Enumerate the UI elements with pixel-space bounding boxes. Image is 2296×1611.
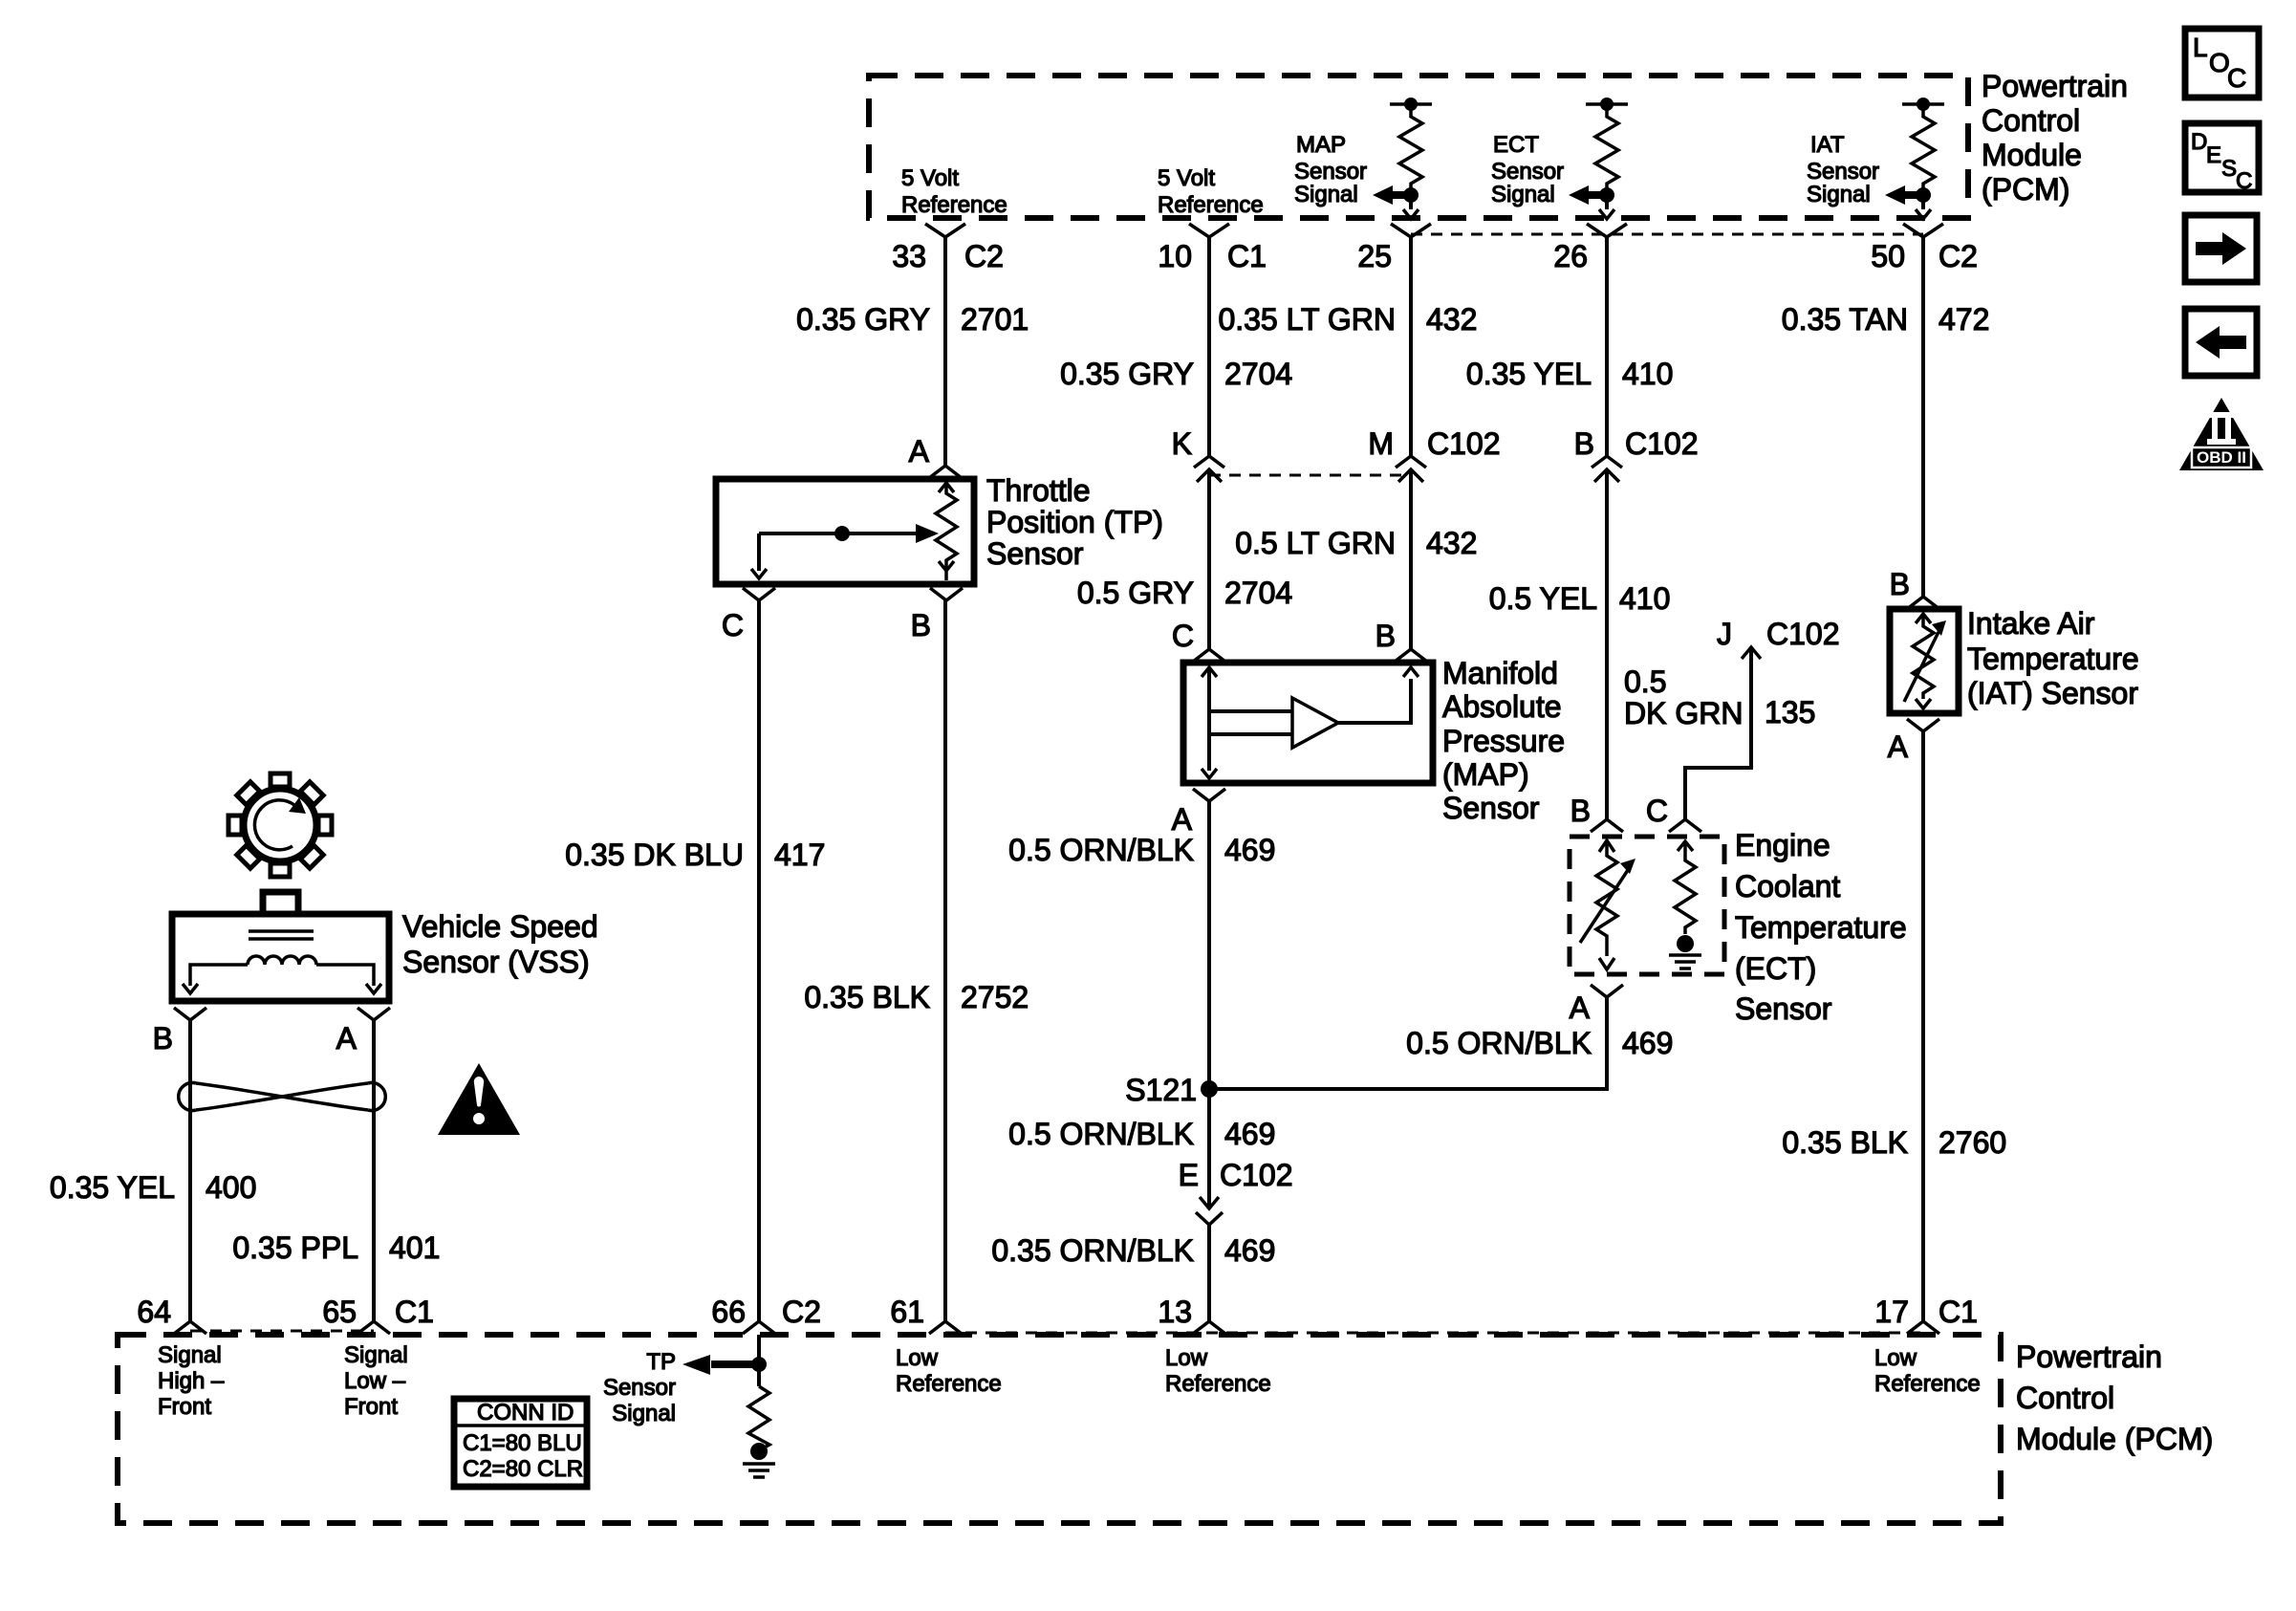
wire MAP signal arrow to pin 25 (1373, 185, 1419, 219)
svg-text:0.35 GRY: 0.35 GRY (1060, 357, 1194, 391)
svg-text:0.35 ORN/BLK: 0.35 ORN/BLK (991, 1233, 1194, 1268)
svg-text:D: D (2191, 129, 2207, 155)
svg-text:Low –: Low – (344, 1368, 406, 1394)
svg-text:C1: C1 (395, 1295, 434, 1329)
svg-text:Absolute: Absolute (1442, 689, 1562, 724)
icon forward arrow box (2185, 215, 2257, 282)
vehicle speed sensor box (172, 914, 389, 1001)
resistor IAT thermistor element (1904, 614, 1946, 708)
svg-text:Control: Control (1982, 103, 2080, 138)
svg-text:L: L (2193, 33, 2208, 62)
svg-text:Signal: Signal (344, 1342, 408, 1368)
pin 65 C1 (322, 1295, 434, 1334)
svg-text:Module (PCM): Module (PCM) (2016, 1422, 2213, 1456)
svg-text:(MAP): (MAP) (1442, 757, 1529, 792)
svg-text:Low: Low (1874, 1345, 1917, 1371)
connector M C102 (1368, 426, 1500, 482)
svg-text:64: 64 (137, 1295, 171, 1329)
warning triangle (438, 1063, 520, 1135)
svg-text:High –: High – (158, 1368, 225, 1394)
connector C2 dashed link pins 25-50 (1411, 233, 1923, 236)
label Throttle Position (TP) Sensor (986, 473, 1163, 571)
label Signal Low Front (344, 1342, 408, 1420)
throttle position sensor box (716, 479, 974, 584)
svg-text:5 Volt: 5 Volt (901, 165, 959, 191)
svg-text:B: B (911, 608, 931, 642)
svg-text:13: 13 (1158, 1295, 1192, 1329)
svg-text:Sensor: Sensor (1491, 159, 1564, 185)
svg-text:E: E (1179, 1158, 1199, 1192)
wire 0.5 YEL 410 B C102 to ECT B (1489, 469, 1671, 819)
svg-text:135: 135 (1765, 695, 1815, 729)
svg-text:469: 469 (1224, 1233, 1275, 1268)
svg-text:Manifold: Manifold (1442, 656, 1558, 690)
wire 0.5 ORN/BLK 469 ECT A to S121 (1209, 997, 1673, 1089)
svg-text:A: A (336, 1021, 357, 1056)
label ECT Sensor Signal (1491, 132, 1564, 207)
label 5 Volt Reference (pin 10) (1158, 165, 1264, 218)
PCM top dashed box (869, 76, 1968, 218)
svg-text:0.35 DK BLU: 0.35 DK BLU (565, 838, 744, 872)
svg-text:Powertrain: Powertrain (2016, 1339, 2162, 1374)
svg-text:Reference: Reference (1165, 1371, 1271, 1397)
svg-text:C: C (1172, 619, 1194, 653)
VSS internal pickup coil (183, 931, 381, 993)
wire 0.35 GRY 2701 pin33 to TP A (796, 237, 1029, 466)
svg-text:Signal: Signal (612, 1401, 676, 1426)
svg-text:469: 469 (1224, 1117, 1275, 1151)
svg-text:401: 401 (389, 1230, 440, 1265)
label Engine Coolant Temperature (ECT) Sensor (1735, 828, 1907, 1026)
svg-text:J: J (1717, 617, 1732, 651)
label Signal High Front (158, 1342, 225, 1420)
svg-text:C2=80 CLR: C2=80 CLR (463, 1456, 583, 1482)
ground in ECT sensor (1669, 955, 1701, 969)
svg-text:B: B (1890, 567, 1910, 601)
svg-text:2701: 2701 (961, 302, 1029, 337)
svg-text:A: A (1172, 802, 1193, 837)
resistor TP potentiometer element (936, 483, 957, 580)
svg-text:A: A (1888, 729, 1909, 764)
resistor IAT pull-up in PCM (1902, 98, 1944, 195)
svg-text:Coolant: Coolant (1735, 869, 1840, 903)
pin 61 (890, 1295, 962, 1334)
MAP sensor box (1183, 663, 1433, 783)
svg-text:417: 417 (774, 838, 825, 872)
svg-text:M: M (1368, 426, 1394, 461)
wire TP wiper arm (751, 524, 939, 578)
label Powertrain Control Module (PCM) top right (1982, 69, 2128, 207)
svg-text:Reference: Reference (901, 192, 1007, 218)
svg-text:(ECT): (ECT) (1735, 951, 1816, 986)
svg-text:OBD II: OBD II (2197, 448, 2246, 467)
svg-text:MAP: MAP (1296, 132, 1346, 158)
VSS connector stem (263, 892, 298, 914)
svg-text:26: 26 (1553, 239, 1588, 273)
svg-text:C1=80 BLU: C1=80 BLU (463, 1430, 582, 1456)
svg-text:0.35 BLK: 0.35 BLK (1782, 1125, 1908, 1160)
svg-text:Sensor: Sensor (603, 1375, 676, 1401)
svg-text:Powertrain: Powertrain (1982, 69, 2128, 103)
pin 17 C1 (1874, 1295, 1978, 1334)
pin C of MAP sensor (1172, 619, 1225, 662)
label IAT Sensor Signal (1807, 132, 1879, 207)
wire 0.5 ORN/BLK 469 below S121 (1008, 1117, 1275, 1151)
resistor ECT thermistor element (1580, 840, 1635, 969)
svg-text:Reference: Reference (1874, 1371, 1981, 1397)
svg-text:Intake Air: Intake Air (1967, 606, 2095, 641)
wire 0.35 YEL 410 pin26 to B C102 (1466, 237, 1673, 456)
resistor TP pull-up in PCM (748, 1386, 769, 1460)
IAT sensor box (1890, 609, 1959, 713)
svg-text:0.5 ORN/BLK: 0.5 ORN/BLK (1008, 833, 1194, 867)
svg-text:C2: C2 (1939, 239, 1978, 273)
svg-text:Front: Front (158, 1394, 211, 1420)
op-amp triangle in MAP sensor (1292, 698, 1338, 748)
svg-text:Reference: Reference (1158, 192, 1264, 218)
pin 26 (1553, 224, 1627, 273)
svg-text:Reference: Reference (896, 1371, 1002, 1397)
svg-text:TP: TP (646, 1349, 676, 1375)
svg-text:0.35 PPL: 0.35 PPL (232, 1230, 358, 1265)
svg-text:2760: 2760 (1939, 1125, 2006, 1160)
label Low Reference (pin 13) (1165, 1345, 1271, 1397)
svg-text:C: C (722, 608, 744, 642)
svg-text:66: 66 (711, 1295, 746, 1329)
wire 0.35 ORN/BLK 469 E to pin 13 (991, 1225, 1275, 1321)
svg-text:410: 410 (1622, 357, 1673, 391)
pin B of ECT sensor (1570, 794, 1623, 832)
CONN ID table (454, 1399, 587, 1487)
svg-text:0.5 LT GRN: 0.5 LT GRN (1235, 526, 1396, 560)
svg-text:Signal: Signal (1294, 182, 1358, 207)
svg-text:33: 33 (892, 239, 926, 273)
connector C1 dashed link pins 64-65 (190, 1330, 374, 1333)
label Low Reference (pin 17) (1874, 1345, 1981, 1397)
wire 0.35 LT GRN 432 pin25 to M (1218, 237, 1477, 456)
node S121 (1125, 1073, 1218, 1107)
svg-text:65: 65 (322, 1295, 357, 1329)
wire 0.5 LT GRN 432 M to MAP B (1235, 469, 1477, 649)
wire 0.5 ORN/BLK 469 MAP A to S121 (1008, 801, 1275, 1206)
svg-text:IAT: IAT (1810, 132, 1845, 158)
svg-text:ECT: ECT (1493, 132, 1539, 158)
wire 0.35 DK BLU 417 TP C to pin 66 (565, 600, 825, 1321)
svg-text:Throttle: Throttle (986, 473, 1090, 508)
pin A of MAP sensor (1172, 789, 1225, 837)
svg-text:Signal: Signal (1491, 182, 1555, 207)
icon DESC box (2185, 123, 2259, 194)
svg-text:B: B (1375, 619, 1396, 653)
svg-text:Front: Front (344, 1394, 398, 1420)
svg-text:B: B (153, 1021, 173, 1056)
svg-text:50: 50 (1871, 239, 1905, 273)
pin B of VSS (153, 1008, 206, 1056)
resistor MAP pull-up in PCM (1390, 98, 1432, 195)
pin 64 (137, 1295, 206, 1334)
svg-text:E: E (2206, 142, 2221, 168)
VSS gear icon (228, 773, 332, 877)
MAP internal input wires (1202, 667, 1292, 778)
svg-text:10: 10 (1158, 239, 1192, 273)
label Powertrain Control Module (PCM) bottom right (2016, 1339, 2213, 1456)
icon LOC box (2185, 29, 2259, 98)
svg-text:469: 469 (1622, 1026, 1673, 1060)
connector C102 dashed link K-M (1209, 474, 1411, 477)
svg-text:Temperature: Temperature (1735, 910, 1907, 945)
svg-text:Control: Control (2016, 1381, 2114, 1415)
svg-text:0.35 YEL: 0.35 YEL (50, 1170, 175, 1205)
label Manifold Absolute Pressure (MAP) Sensor (1442, 656, 1565, 825)
svg-text:A: A (1570, 991, 1591, 1025)
PCM bottom dashed box (118, 1335, 2001, 1523)
svg-text:C102: C102 (1220, 1158, 1293, 1192)
wire 0.35 BLK 2760 IAT A to pin 17 (1782, 731, 2006, 1321)
ECT sensor dashed box (1570, 837, 1724, 974)
svg-text:Signal: Signal (158, 1342, 222, 1368)
pin B of MAP sensor (1375, 619, 1427, 662)
svg-text:469: 469 (1224, 833, 1275, 867)
svg-text:Low: Low (896, 1345, 939, 1371)
label Vehicle Speed Sensor (VSS) (402, 909, 598, 979)
wire 0.5 DK GRN 135 ECT C to J C102 (1624, 617, 1840, 819)
svg-text:C1: C1 (1227, 239, 1267, 273)
svg-text:C1: C1 (1939, 1295, 1978, 1329)
svg-text:Engine: Engine (1735, 828, 1830, 862)
svg-text:432: 432 (1426, 526, 1477, 560)
svg-text:Low: Low (1165, 1345, 1208, 1371)
svg-text:472: 472 (1939, 302, 1989, 337)
pin 13 (1158, 1295, 1225, 1334)
svg-text:S121: S121 (1125, 1073, 1197, 1107)
label Low Reference (pin 61) (896, 1345, 1002, 1397)
ground in PCM (743, 1464, 775, 1477)
svg-text:2704: 2704 (1224, 576, 1292, 610)
svg-text:B: B (1570, 794, 1591, 828)
wire VSS B upper (188, 1020, 192, 1321)
svg-text:K: K (1172, 426, 1192, 461)
pin 10 C1 (1158, 224, 1267, 273)
svg-text:0.35 LT GRN: 0.35 LT GRN (1218, 302, 1396, 337)
svg-text:61: 61 (890, 1295, 924, 1329)
icon OBD II triangle (2179, 398, 2264, 470)
connector B C102 (1574, 426, 1699, 482)
pin A of VSS (336, 1008, 390, 1056)
icon back arrow box (2185, 309, 2257, 376)
svg-text:Vehicle Speed: Vehicle Speed (402, 909, 598, 944)
wire TP sensor signal arrow in PCM (682, 1335, 767, 1386)
pin B of IAT sensor (1890, 567, 1939, 609)
svg-text:CONN ID: CONN ID (477, 1400, 574, 1426)
label 5 Volt Reference (pin 33) (901, 165, 1007, 218)
svg-text:S: S (2221, 156, 2237, 182)
resistor ECT pull-up in PCM (1586, 98, 1628, 195)
svg-text:C102: C102 (1625, 426, 1699, 461)
pin C of TP sensor (722, 588, 775, 642)
svg-text:C: C (2236, 168, 2252, 194)
pin B of TP sensor (911, 588, 963, 642)
pin A of TP sensor (909, 434, 962, 478)
svg-text:0.5 ORN/BLK: 0.5 ORN/BLK (1406, 1026, 1592, 1060)
svg-text:0.35 YEL: 0.35 YEL (1466, 357, 1592, 391)
svg-text:0.5 ORN/BLK: 0.5 ORN/BLK (1008, 1117, 1194, 1151)
svg-text:17: 17 (1874, 1295, 1909, 1329)
svg-text:0.5 GRY: 0.5 GRY (1077, 576, 1194, 610)
svg-text:400: 400 (206, 1170, 256, 1205)
svg-text:Position (TP): Position (TP) (986, 505, 1163, 539)
pin A of ECT sensor (1570, 985, 1623, 1025)
pin 66 C2 (711, 1295, 821, 1334)
connector C1 dashed link pins 61-17 (945, 1332, 1923, 1335)
svg-text:0.35 GRY: 0.35 GRY (796, 302, 930, 337)
wire VSS A upper (372, 1020, 376, 1321)
svg-text:(PCM): (PCM) (1982, 172, 2069, 207)
svg-text:432: 432 (1426, 302, 1477, 337)
resistor ECT internal to ground (1675, 841, 1696, 952)
svg-text:C: C (1646, 794, 1668, 828)
svg-text:0.5: 0.5 (1624, 664, 1666, 699)
pin 25 (1357, 224, 1431, 273)
MAP internal output wire (1338, 667, 1419, 723)
wire 0.35 YEL 400 VSS B to pin 64 (50, 1170, 256, 1205)
label MAP Sensor Signal (1294, 132, 1367, 207)
svg-text:C2: C2 (782, 1295, 821, 1329)
label TP Sensor Signal (603, 1349, 676, 1426)
svg-text:2704: 2704 (1224, 357, 1292, 391)
wire 0.35 GRY 2704 pin10 to K (1060, 237, 1292, 456)
wire ECT signal arrow to pin 26 (1569, 185, 1614, 219)
svg-text:0.35 BLK: 0.35 BLK (804, 980, 930, 1014)
svg-text:C102: C102 (1427, 426, 1501, 461)
wire 0.35 BLK 2752 TP B to pin 61 (804, 600, 1029, 1321)
wire 0.35 PPL 401 VSS A to pin 65 (232, 1230, 440, 1265)
connector E C102 (1179, 1158, 1293, 1225)
svg-text:Sensor: Sensor (1442, 791, 1540, 825)
svg-text:Sensor: Sensor (1807, 159, 1879, 185)
svg-text:C: C (2227, 63, 2246, 93)
pin 50 C2 (1871, 224, 1978, 273)
wire 0.35 TAN 472 pin50 to IAT B (1782, 237, 1990, 597)
connector K C102 (1172, 426, 1224, 482)
svg-text:C2: C2 (964, 239, 1004, 273)
svg-text:410: 410 (1619, 581, 1670, 616)
svg-text:Module: Module (1982, 138, 2082, 172)
svg-text:0.35 TAN: 0.35 TAN (1782, 302, 1908, 337)
svg-text:A: A (909, 434, 930, 468)
svg-text:Sensor (VSS): Sensor (VSS) (402, 945, 590, 979)
svg-text:0.5 YEL: 0.5 YEL (1489, 581, 1597, 616)
svg-text:5 Volt: 5 Volt (1158, 165, 1215, 191)
pin 33 C2 (892, 224, 1004, 273)
svg-text:Sensor: Sensor (986, 536, 1084, 571)
svg-text:Sensor: Sensor (1294, 159, 1367, 185)
svg-text:DK GRN: DK GRN (1624, 696, 1743, 730)
wire 0.5 GRY 2704 K to MAP C (1077, 469, 1292, 649)
svg-text:Sensor: Sensor (1735, 991, 1832, 1026)
wire IAT signal arrow to pin 50 (1885, 185, 1931, 219)
twisted pair symbol (179, 1082, 386, 1110)
svg-text:C102: C102 (1766, 617, 1840, 651)
svg-text:2752: 2752 (961, 980, 1029, 1014)
svg-text:(IAT) Sensor: (IAT) Sensor (1967, 676, 2138, 710)
svg-text:Temperature: Temperature (1967, 642, 2139, 676)
pin A of IAT sensor (1888, 719, 1939, 764)
svg-text:Pressure: Pressure (1442, 724, 1565, 758)
svg-text:Signal: Signal (1807, 182, 1871, 207)
svg-text:B: B (1574, 426, 1594, 461)
svg-text:25: 25 (1357, 239, 1392, 273)
pin C of ECT sensor (1646, 794, 1701, 832)
label Intake Air Temperature (IAT) Sensor (1967, 606, 2139, 710)
